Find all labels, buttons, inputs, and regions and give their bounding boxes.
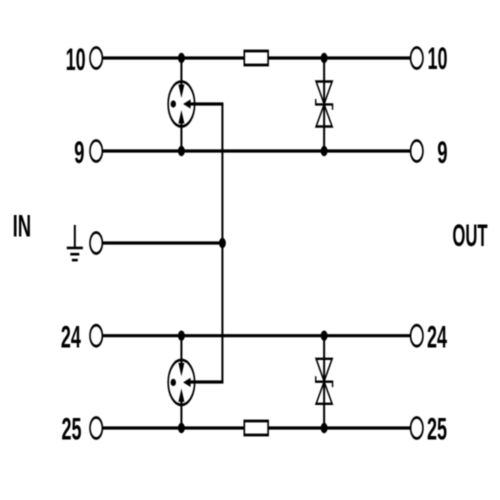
svg-text:10: 10 <box>66 43 86 77</box>
wire line 10 <box>103 56 410 59</box>
junction line10/diodes <box>321 53 328 63</box>
suppressor diode pair D2 (between 24 and 25) <box>316 359 333 404</box>
svg-text:9: 9 <box>437 136 447 170</box>
wire line 25 <box>103 426 410 429</box>
wire line 9 <box>103 149 410 152</box>
wire arrow feed upper <box>187 102 223 105</box>
wire arrow feed lower <box>187 380 223 383</box>
wire diode column lower <box>322 336 325 428</box>
junction line25/GDT <box>178 423 185 433</box>
terminal 10 left <box>90 48 102 69</box>
junction ground/center <box>219 238 226 248</box>
terminal 24 left <box>90 325 102 346</box>
junction line9/GDT <box>178 146 185 156</box>
svg-text:9: 9 <box>74 136 84 170</box>
svg-text:25: 25 <box>427 413 447 447</box>
gas discharge tube F2 (lower) <box>168 360 194 405</box>
gas discharge tube F1 (upper) <box>168 82 194 127</box>
wire diode column upper <box>322 58 325 151</box>
terminal 9 right <box>411 141 423 162</box>
junction line24/GDT <box>178 331 185 341</box>
wire line 24 <box>103 334 410 337</box>
terminal 25 right <box>411 418 423 439</box>
suppressor diode pair D1 (between 10 and 9) <box>316 82 333 127</box>
terminal 10 right <box>411 48 423 69</box>
terminal 24 right <box>411 325 423 346</box>
junction line25/diodes <box>321 423 328 433</box>
resistor R1 on line 10 <box>244 51 268 65</box>
svg-text:24: 24 <box>61 321 81 355</box>
svg-text:IN: IN <box>13 210 32 244</box>
svg-text:10: 10 <box>427 42 447 76</box>
resistor R2 on line 25 <box>244 421 268 435</box>
junction line10/GDT <box>178 53 185 63</box>
junction line24/diodes <box>321 331 328 341</box>
svg-text:25: 25 <box>61 413 81 447</box>
terminal ground left <box>90 233 102 254</box>
terminal 9 left <box>90 141 102 162</box>
wire GDT column upper <box>180 58 183 92</box>
svg-text:OUT: OUT <box>452 219 487 253</box>
svg-text:24: 24 <box>427 320 447 354</box>
ground symbol <box>67 225 83 260</box>
wire ground line <box>103 241 222 244</box>
junction line9/diodes <box>321 146 328 156</box>
terminal 25 left <box>90 418 102 439</box>
wire GDT column lower <box>180 336 183 370</box>
wire center vertical <box>221 104 224 382</box>
